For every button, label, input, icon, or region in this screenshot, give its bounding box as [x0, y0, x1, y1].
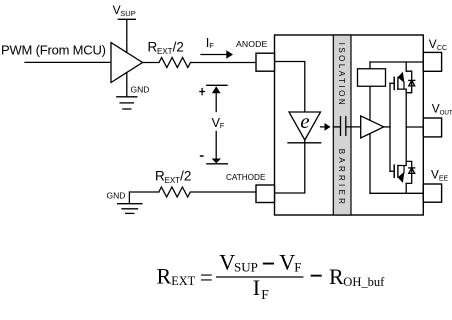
svg-text:F: F: [294, 260, 301, 275]
svg-text:/2: /2: [180, 169, 191, 184]
svg-text:EE: EE: [439, 176, 449, 183]
svg-text:R: R: [157, 264, 172, 289]
svg-text:V: V: [429, 37, 437, 51]
svg-text:OUT: OUT: [440, 109, 452, 116]
svg-text:V: V: [432, 102, 440, 116]
svg-text:V: V: [431, 168, 439, 182]
svg-text:SUP: SUP: [234, 260, 258, 275]
svg-text:V: V: [219, 249, 235, 274]
svg-text:EXT: EXT: [157, 47, 173, 56]
svg-text:R: R: [148, 40, 158, 55]
svg-text:SUP: SUP: [120, 9, 135, 18]
svg-text:/2: /2: [173, 40, 184, 55]
svg-text:ISOLATION: ISOLATION: [337, 43, 346, 108]
svg-text:CATHODE: CATHODE: [226, 173, 266, 182]
svg-text:GND: GND: [107, 190, 126, 200]
svg-text:BARRIER: BARRIER: [337, 149, 346, 207]
svg-text:R: R: [329, 264, 344, 289]
svg-text:F: F: [209, 41, 214, 50]
svg-text:F: F: [220, 121, 225, 130]
svg-text:R: R: [155, 169, 165, 184]
svg-text:e: e: [300, 109, 309, 133]
svg-text:I: I: [253, 275, 260, 300]
svg-text:=: =: [200, 265, 213, 290]
svg-text:EXT: EXT: [171, 274, 195, 288]
svg-text:CC: CC: [437, 45, 447, 52]
svg-text:F: F: [261, 287, 269, 302]
svg-text:ANODE: ANODE: [236, 39, 267, 49]
svg-text:V: V: [279, 249, 295, 274]
svg-text:PWM (From MCU): PWM (From MCU): [1, 43, 106, 58]
svg-text:OH_buf: OH_buf: [343, 275, 385, 289]
svg-text:EXT: EXT: [165, 176, 181, 185]
svg-text:GND: GND: [131, 84, 150, 94]
